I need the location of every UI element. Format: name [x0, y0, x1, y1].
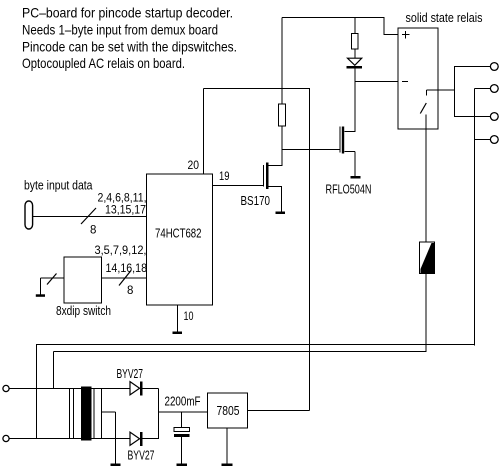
svg-text:Pincode can be set with the di: Pincode can be set with the dipswitches.: [22, 39, 237, 55]
svg-text:8: 8: [127, 285, 133, 297]
svg-text:7805: 7805: [217, 404, 240, 418]
svg-text:20: 20: [188, 160, 200, 172]
svg-text:8xdip switch: 8xdip switch: [56, 304, 111, 318]
svg-text:BYV27: BYV27: [128, 449, 155, 463]
svg-text:BS170: BS170: [241, 194, 271, 208]
svg-text:Needs 1–byte input from demux: Needs 1–byte input from demux board: [22, 22, 218, 38]
svg-text:byte input data: byte input data: [24, 179, 93, 193]
svg-text:13,15,17: 13,15,17: [105, 205, 146, 217]
svg-text:PC–board for pincode startup d: PC–board for pincode startup decoder.: [22, 5, 233, 21]
svg-text:2200mF: 2200mF: [165, 395, 201, 409]
svg-text:19: 19: [219, 171, 230, 183]
svg-text:solid state relais: solid state relais: [406, 10, 483, 25]
svg-text:BYV27: BYV27: [117, 367, 144, 381]
svg-text:3,5,7,9,12,: 3,5,7,9,12,: [95, 245, 147, 257]
svg-text:2,4,6,8,11,: 2,4,6,8,11,: [98, 193, 147, 205]
svg-text:10: 10: [184, 311, 194, 323]
svg-text:RFLO504N: RFLO504N: [326, 183, 372, 197]
svg-text:74HCT682: 74HCT682: [155, 226, 202, 241]
svg-text:Optocoupled AC relais on board: Optocoupled AC relais on board.: [22, 55, 185, 71]
svg-text:8: 8: [90, 225, 96, 237]
svg-text:14,16,18: 14,16,18: [106, 263, 148, 275]
